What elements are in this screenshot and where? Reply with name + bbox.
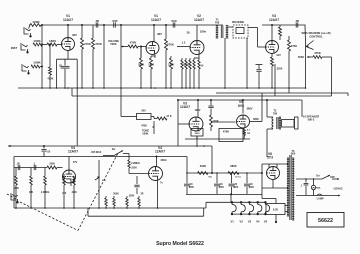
wire C5 25MFD stem2	[189, 69, 191, 88]
wire R12 stem	[165, 25, 167, 39]
speaker mouth	[295, 117, 299, 129]
label 1 AMP	[316, 198, 324, 201]
wire B+ feeds x275	[274, 64, 276, 96]
wire R10 1800 stem	[150, 56, 152, 58]
label C16	[301, 185, 304, 187]
wire R31 2.2K stem2	[138, 206, 140, 208]
wire R24 4MEG stem	[30, 168, 32, 177]
label fuse MDL	[316, 188, 321, 190]
wire V5 screen	[250, 121, 263, 123]
label 115VAC	[333, 186, 343, 190]
svg-text:V5: V5	[264, 220, 268, 224]
wire tank out to grid	[258, 46, 266, 48]
label J2 INST	[11, 46, 18, 50]
wire R7 stem	[92, 25, 94, 38]
wire T1 bottom to bus	[224, 38, 226, 88]
label socket V3	[248, 220, 252, 224]
wire R15 820 stem	[193, 58, 195, 60]
wire 5V loop h	[262, 198, 276, 200]
wire C13 20MFD stem2	[216, 187, 218, 195]
op V1a triode	[62, 38, 75, 51]
wire T3 core a	[289, 155, 291, 220]
wire cathode cap stem	[64, 59, 66, 65]
wire pot INT body	[98, 160, 100, 186]
switch SW blade	[114, 151, 123, 156]
wire V4a cathode	[157, 181, 159, 195]
svg-text:46V: 46V	[72, 33, 77, 37]
svg-text:1800: 1800	[49, 163, 55, 166]
wire cap drop tee	[256, 64, 263, 66]
wire V2 cathode	[198, 55, 200, 59]
resistor R2 100K	[33, 43, 42, 46]
label ON	[316, 174, 320, 177]
wire ch2 input rail	[14, 167, 47, 169]
wire T2 bottom v	[266, 129, 268, 157]
label R8 470K	[130, 41, 137, 45]
label R9 180K	[138, 63, 144, 67]
resistor R12 270K	[165, 39, 168, 50]
label 8MFD 3600	[194, 131, 200, 136]
wire x77 drop to ch2	[76, 88, 78, 146]
node 470K top	[49, 44, 51, 46]
wire tank out v	[257, 28, 259, 48]
junction bus x225	[224, 87, 226, 89]
wire ch2 left box	[13, 157, 15, 209]
wire R19 stem2	[288, 51, 290, 88]
wire R30 1MEG stem	[126, 196, 128, 198]
switch mains blade	[322, 175, 330, 179]
junction bus x171	[170, 87, 172, 89]
wire B+ feeds x289b	[288, 88, 290, 93]
label V3a 12V	[276, 53, 281, 57]
wire R11 120K stem	[170, 56, 172, 58]
wire C12 20MFD stem	[186, 173, 188, 183]
wire tone feed h	[121, 116, 137, 118]
label .02	[0, 0, 1, 1]
svg-text:6.3V: 6.3V	[273, 208, 279, 212]
svg-text:47V: 47V	[73, 161, 78, 164]
rail ch2 top y146	[8, 145, 212, 147]
resistor R9 180K	[140, 58, 143, 69]
label 56622	[318, 218, 333, 224]
node grid mix	[41, 44, 43, 46]
wire V3b plate up	[197, 100, 199, 117]
wire V6 plate stub b	[276, 164, 278, 168]
label 250K b	[129, 196, 135, 198]
resistor R29 250K	[113, 198, 115, 206]
tube socket V4 heater	[257, 202, 262, 215]
op V4b triode label	[68, 146, 78, 154]
label J4	[0, 0, 1, 1]
resistor R35 680K series	[228, 172, 239, 175]
label R25 2.2MEG	[41, 192, 50, 194]
label R6 270K	[84, 42, 91, 46]
svg-text:12AX7: 12AX7	[180, 105, 190, 109]
svg-text:3600: 3600	[195, 133, 201, 135]
resistor R20 470K	[313, 56, 322, 59]
svg-text:2200: 2200	[131, 167, 137, 170]
junction R30 1MEG	[126, 207, 128, 209]
wire R6 stem2	[81, 49, 83, 88]
svg-text:708: 708	[273, 112, 278, 115]
label 2200 t	[131, 167, 137, 170]
capacitor C4 25MFD cathode	[61, 66, 70, 68]
svg-text:1B: 1B	[186, 32, 189, 35]
wire R29 250K stem	[113, 196, 115, 198]
wire V3b cath	[197, 129, 199, 132]
svg-text:180K: 180K	[13, 188, 19, 190]
svg-text:.05: .05	[295, 19, 300, 23]
label R17 470K	[0, 0, 1, 1]
svg-text:2.2MEG: 2.2MEG	[41, 192, 50, 194]
label V6 pin	[0, 0, 1, 1]
label R1 100K	[32, 20, 40, 24]
label V5 380V	[247, 107, 253, 110]
transformer T3 secondary HV	[287, 158, 289, 216]
svg-text:10 7w: 10 7w	[235, 177, 241, 179]
svg-text:12AX7: 12AX7	[68, 150, 78, 154]
transformer T1 primary	[216, 26, 219, 39]
wire R9 180K stem	[140, 47, 142, 59]
node x44 rail	[43, 145, 45, 147]
wire C13 20MFD stem	[216, 173, 218, 183]
wire R11 120K stem2	[170, 69, 172, 88]
svg-text:580-2: 580-2	[308, 118, 315, 122]
junction R28 500K	[105, 207, 107, 209]
label C2 .005	[111, 19, 117, 23]
label V5 1W	[247, 133, 251, 135]
junction R23 180K bottom	[15, 207, 17, 209]
resistor R28 500K	[105, 198, 107, 206]
wire T1 core a	[220, 26, 222, 39]
label 20MFD v4	[0, 0, 1, 1]
node V5 plate rail	[242, 99, 244, 101]
capacitor C6 .05	[296, 22, 298, 27]
ground rail y194	[186, 193, 262, 195]
wire T2 core a	[276, 117, 278, 129]
junction bus x93	[92, 87, 94, 89]
wire T1 sec to tank	[228, 26, 233, 28]
label T1	[215, 17, 220, 24]
junction bus x155	[154, 87, 156, 89]
wire rail stub left	[29, 24, 30, 26]
wire V6 top loop	[262, 163, 288, 165]
wire tone joins	[151, 116, 154, 118]
wire to V1b grid	[138, 46, 146, 48]
svg-text:REVERB: REVERB	[232, 20, 244, 24]
junction R31 2.2K	[138, 207, 140, 209]
svg-text:V4: V4	[256, 220, 260, 224]
node filter gnd x231	[230, 193, 232, 195]
wire V5 cath gnd	[243, 136, 245, 140]
wire x72 stub	[71, 88, 73, 96]
label R21 170K	[212, 119, 218, 123]
wire 470K line	[307, 56, 313, 58]
capacitor C8 .05 decouple	[41, 150, 46, 152]
wire R25 2.2MEG stem2	[44, 185, 46, 208]
capacitor C12 20MFD	[184, 184, 190, 186]
svg-text:12AX7: 12AX7	[63, 18, 73, 22]
wire jack1 to rail	[29, 25, 31, 29]
junction bus x305.5	[305, 87, 307, 89]
label C6 .05	[295, 19, 300, 23]
label V2 pin 1B	[186, 32, 189, 35]
label socket V5	[264, 220, 268, 224]
node V1b plate rail	[153, 24, 155, 26]
junction bus x121	[120, 87, 122, 89]
svg-text:V1: V1	[230, 220, 234, 224]
wire x137 v	[136, 176, 138, 184]
wire x44 stem2	[43, 152, 45, 157]
mains neutral arrow	[338, 195, 340, 197]
svg-text:500K: 500K	[143, 132, 149, 135]
svg-text:On: On	[316, 174, 320, 177]
wire INT bottom	[98, 186, 100, 208]
arrow 470K left	[307, 56, 309, 58]
resistor R10 1800	[150, 58, 153, 69]
wire V3b grid	[178, 123, 189, 125]
label R34 300K	[200, 164, 206, 168]
svg-text:V2: V2	[240, 220, 244, 224]
transformer T2 secondary	[279, 117, 281, 129]
junction bus x82	[81, 87, 83, 89]
op V2 triode	[190, 41, 204, 55]
label INT 250K	[102, 180, 107, 182]
junction bus x289	[288, 87, 290, 89]
node x211 rail	[210, 99, 212, 101]
resistor R36 cathode V5	[243, 129, 245, 136]
label 2R b	[141, 194, 144, 196]
wire R25 2.2MEG stem	[44, 168, 46, 177]
ground seg y139	[185, 138, 250, 140]
junction rail A x197	[196, 145, 198, 147]
node B+ takeoff	[261, 172, 263, 174]
junction R29 250K	[113, 207, 115, 209]
capacitor C2 .005 coupling	[114, 22, 116, 27]
wire R30 1MEG stem2	[126, 206, 128, 208]
wire V1a plate up	[67, 25, 69, 38]
wire INT wiper	[95, 177, 100, 180]
wire V3a plate up	[271, 25, 273, 41]
wire T2 top feed h	[267, 116, 273, 118]
label R32 47K	[166, 115, 171, 118]
op V3a triode	[266, 41, 279, 54]
svg-text:1 AMP: 1 AMP	[316, 198, 324, 201]
wire R23 180K stem	[15, 168, 17, 177]
junction cap line	[305, 178, 307, 180]
wire cathode loop right	[76, 59, 78, 88]
label .005 MAX	[91, 151, 102, 154]
wire volume pot body	[120, 28, 122, 60]
label V2 cath 10	[201, 65, 204, 68]
rail screen y100	[178, 99, 302, 101]
label 300H	[161, 159, 167, 162]
svg-text:56622: 56622	[318, 218, 333, 224]
svg-text:2R: 2R	[141, 194, 144, 196]
wire 5V loop v2	[275, 199, 277, 204]
wire box to T3 a	[285, 205, 288, 207]
svg-text:48V: 48V	[157, 32, 162, 36]
junction bus x199	[198, 87, 200, 89]
wire R19 stem	[288, 36, 290, 40]
node V4a plate	[156, 156, 158, 158]
bus ground y88	[18, 87, 306, 89]
wire box gnd stem	[275, 215, 277, 222]
label choke 3200	[277, 67, 283, 71]
label R27 2200	[72, 192, 78, 194]
op V3b triode	[189, 117, 203, 131]
wire jack3 to bus	[40, 66, 42, 68]
resistor R17 470K	[279, 27, 282, 36]
wire V4b cath join	[63, 174, 65, 176]
wire pot wiper diag	[306, 41, 314, 47]
mains line hot2	[332, 178, 338, 180]
label Sw	[112, 148, 116, 151]
svg-text:2200: 2200	[72, 192, 78, 194]
wire cathode cap stem2	[64, 69, 66, 88]
wire grid to V1a	[57, 44, 62, 46]
op V3a triode label	[269, 14, 279, 22]
wire R27 2200 stem	[73, 176, 75, 183]
label TONE 500K	[142, 130, 149, 136]
wire R17 stem	[279, 25, 281, 27]
op V1a triode label	[63, 14, 73, 22]
capacitor C14 20MFD	[229, 184, 235, 186]
label C4 25MFD	[59, 65, 62, 68]
svg-text:12AX7: 12AX7	[151, 18, 161, 22]
label C14 20MFD	[233, 184, 238, 189]
node x104 rail	[103, 24, 105, 26]
svg-text:115VAC: 115VAC	[333, 186, 343, 190]
wire x129 v2	[128, 168, 130, 174]
junction bus x151	[150, 87, 152, 89]
capacitor C10 .1	[34, 165, 36, 170]
resistor R6 270K	[81, 38, 84, 49]
label C9 .05	[16, 163, 20, 166]
label node 1.5	[182, 42, 186, 45]
jack J3 input	[22, 64, 29, 74]
node T2 y100	[266, 99, 268, 101]
wire V1b cath join	[151, 55, 155, 57]
wire T3 sec bottom	[287, 187, 288, 189]
resistor R34 300K series	[198, 172, 209, 175]
wire T2 top feed v	[266, 100, 268, 117]
wire cathode loop top	[57, 58, 78, 60]
transformer T3 primary	[292, 158, 294, 220]
svg-text:270K: 270K	[84, 42, 91, 46]
svg-text:47 K: 47 K	[166, 115, 171, 118]
resistor R18 2700	[271, 57, 274, 66]
wire T3 sec top	[287, 163, 288, 165]
rail B+ filter y173	[187, 172, 262, 174]
resistor R31 2.2K	[138, 198, 140, 206]
svg-text:500K: 500K	[298, 55, 304, 59]
op V3b triode label	[180, 102, 190, 110]
pot wiper volume arrow	[121, 46, 123, 48]
label V1a plate 46V	[72, 33, 77, 37]
wire cath box gnd	[196, 136, 198, 139]
tube socket V3 heater	[249, 202, 254, 215]
svg-text:180K: 180K	[138, 63, 144, 67]
node jack3 bus	[41, 66, 43, 68]
op V6 rectifier label	[267, 152, 273, 160]
arrow ch2 rail	[8, 145, 11, 147]
junction bus x42	[41, 87, 43, 89]
wire R15 820 stem2	[193, 69, 195, 88]
resistor R33	[128, 160, 130, 168]
wire x44 stem	[43, 146, 45, 149]
svg-text:MDL: MDL	[316, 188, 321, 190]
wire x211 low	[210, 127, 212, 131]
wire C15 20MFD stem	[246, 173, 248, 183]
wire T3 core b	[290, 155, 292, 220]
svg-text:5Y3: 5Y3	[267, 156, 273, 160]
label R2 100K	[33, 39, 41, 43]
junction bus x194	[193, 87, 195, 89]
label 470K box	[223, 130, 229, 134]
svg-text:1800: 1800	[49, 39, 56, 43]
svg-text:470K: 470K	[223, 130, 229, 134]
wire R26 100 stem	[63, 176, 65, 183]
dashed footswitch b	[78, 153, 118, 231]
label C12 20MFD	[189, 184, 194, 189]
wire 470K stem2	[49, 75, 51, 88]
pot wiper reverb arrow	[306, 45, 308, 47]
op V5 power tube label	[238, 100, 244, 108]
svg-text:500: 500	[141, 110, 146, 113]
resistor R27 2200	[73, 176, 76, 185]
fuse F1 circle	[311, 185, 315, 189]
wire fuse stem	[313, 179, 315, 185]
wire V6 left loop	[261, 164, 263, 188]
wire tone pot	[153, 121, 155, 134]
junction C15 20MFD top	[246, 172, 248, 174]
mains line hot y179	[296, 178, 322, 180]
capacitor C17	[256, 70, 261, 72]
svg-text:3200: 3200	[277, 67, 283, 71]
label R3 100K	[33, 61, 41, 65]
label T3	[291, 150, 296, 156]
title Supro Model S6622	[156, 241, 204, 247]
wire T1 core b	[222, 26, 224, 39]
capacitor C7 .1	[208, 106, 213, 108]
wire V6 bottom loop	[262, 187, 288, 189]
node R6 rail	[81, 24, 83, 26]
label R4 1800	[49, 39, 56, 43]
wire R14 1K stem2	[185, 69, 187, 88]
speaker driver box	[282, 120, 295, 128]
wire tank bottom to bus	[246, 38, 248, 88]
op V5 power tube	[237, 115, 250, 128]
label V4a 7v	[160, 182, 163, 185]
resistor R14 1K	[185, 60, 187, 69]
wire V4b plate	[68, 157, 70, 171]
svg-text:12AX7: 12AX7	[155, 150, 165, 154]
tube socket V2 heater	[240, 202, 245, 215]
wire C14 20MFD stem	[231, 173, 233, 183]
svg-text:5K0: 5K0	[291, 153, 296, 156]
junction bus x141	[140, 87, 142, 89]
resistor R30 1MEG	[126, 198, 128, 206]
label REVERB unit	[232, 20, 244, 24]
wire x211 mid	[210, 109, 212, 116]
resistor R25 2.2MEG	[44, 176, 47, 185]
wire R13 1K stem	[181, 58, 183, 60]
resistor R26 100	[63, 176, 66, 185]
resistor box 470K	[219, 129, 243, 142]
node V3a plate	[271, 24, 273, 26]
wire R9 180K stem2	[140, 69, 142, 88]
